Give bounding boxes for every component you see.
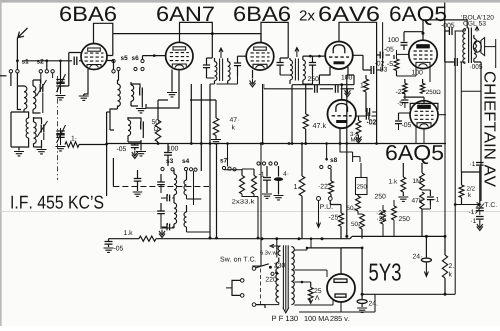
cap line 100 (335, 75, 354, 93)
tuning gang 2 (56, 125, 65, 145)
node s1 (16, 59, 29, 64)
det cap2 (157, 203, 165, 222)
cap -005 (441, 23, 465, 35)
contact s3b (171, 168, 174, 171)
OT primary (463, 29, 466, 64)
label 6AN7 (157, 6, 214, 21)
cap -05 railC (105, 239, 124, 251)
label 6AV6 (319, 6, 379, 21)
wire railC drop262 (252, 142, 262, 266)
contact s1b (9, 70, 12, 73)
scan left edge (0, 0, 2, 326)
node railB dots (288, 142, 378, 145)
cap -05 railB (117, 144, 139, 152)
res 50a dn (351, 214, 364, 239)
det cap1 (157, 174, 165, 193)
wire V2 topcap (180, 22, 213, 58)
PT primary (265, 258, 279, 305)
label 63vw (260, 251, 277, 255)
coil L1 sec frame (11, 112, 29, 147)
contact s7b (228, 167, 231, 170)
wire x247 (246, 197, 248, 239)
box 250 (356, 178, 368, 195)
wire s2c stub (52, 73, 54, 78)
contact s8b (328, 165, 331, 168)
det coil1 (174, 169, 177, 198)
coil L2 rf (33, 80, 41, 113)
wire 33k bot (242, 194, 259, 239)
label s5 (121, 56, 128, 61)
wire 33k top (224, 168, 254, 171)
wire V3 topcap (261, 22, 288, 58)
wire s7 up (226, 142, 229, 166)
cap 02 V4 (363, 22, 384, 74)
wire 47k V2 (190, 100, 216, 139)
scan top edge (0, 0, 500, 3)
ground gang1 (56, 96, 66, 100)
label IF 455 (12, 196, 104, 209)
IFT2 primary (290, 58, 293, 84)
wire IFT2 legs (280, 75, 312, 84)
cap V1 grid (74, 57, 77, 66)
contact s6b (141, 59, 144, 62)
cap 02 V5 (366, 108, 377, 124)
wire V1 cath (84, 69, 88, 96)
wire V4 topcap (339, 22, 377, 143)
res 250ohm v7 (420, 79, 440, 94)
cap 100 v6top (388, 32, 423, 50)
wire vert210 (209, 84, 212, 240)
wire V4 d1 (319, 67, 330, 84)
ground 47k (211, 140, 221, 144)
wire s5c coil (118, 71, 119, 80)
wire x446 vert (444, 29, 446, 237)
wire x347 long (345, 75, 348, 238)
wire v5 line264 (263, 84, 265, 89)
res 47k right (412, 192, 425, 236)
cap 02 V5r (366, 112, 376, 124)
cap 4 elec (274, 166, 288, 195)
tube V5 6AV6 (328, 100, 356, 128)
IFT2 arrow (295, 48, 299, 58)
ground railC end (104, 248, 114, 252)
contact s4a (184, 167, 187, 170)
res 47k V2 (213, 117, 238, 135)
label CHIEFTAIN AV (484, 72, 495, 187)
osc grid cap (131, 84, 142, 100)
label s8 (325, 158, 337, 163)
feedback cap (128, 118, 143, 138)
wire s8 drop (325, 142, 328, 159)
wire det out (187, 198, 202, 200)
shield box corner (113, 158, 209, 187)
wire V1 topcap (94, 23, 113, 43)
padder cap det (133, 170, 143, 196)
wire V5 topcap (341, 85, 343, 100)
wire vert201 (200, 84, 203, 171)
cap -5 v7 (398, 94, 409, 109)
label 285v (330, 316, 349, 321)
PT secondary (291, 247, 294, 305)
cap -05 v7 (395, 113, 411, 130)
wire V1 grid (62, 53, 82, 87)
contact pair b (269, 162, 278, 165)
label 6AQ5 a (390, 6, 446, 25)
wire 5Y3 bot (299, 294, 375, 312)
wire V2 cath gnd (167, 70, 177, 97)
coil feedback (128, 117, 131, 142)
label -05 v6 (384, 47, 393, 52)
gnd -1 mid (262, 194, 272, 198)
contact s1a (16, 70, 19, 73)
wire IFT1 bot (210, 83, 228, 85)
wire V5 right (356, 115, 366, 117)
wire vol link (358, 163, 362, 214)
wire s1b down (10, 73, 12, 86)
tube V3 6BA6 (246, 43, 274, 71)
wire v6 bot (397, 67, 431, 82)
IFT1 left cap (203, 58, 212, 78)
wire coil106 (107, 111, 110, 113)
res 25A (308, 282, 321, 304)
ground osc (34, 140, 47, 154)
cap 24 a (413, 236, 432, 276)
wire V3 screen (261, 84, 264, 145)
OT core (469, 28, 472, 64)
contact s5b (112, 70, 115, 73)
contact pu t2 (328, 197, 332, 201)
res 1meg avc (65, 136, 79, 148)
node railC dots (261, 235, 447, 240)
label 250 left (375, 194, 386, 199)
wire det vert193 (193, 171, 195, 205)
wire x461 vert (460, 62, 462, 172)
gnd -05 railB (132, 151, 138, 159)
trimmer TC (476, 204, 485, 216)
contact s6a (134, 67, 137, 70)
rf coil frame (110, 109, 118, 130)
label 2x (300, 10, 315, 20)
label -25 r (377, 216, 386, 221)
ground 24b (357, 308, 367, 312)
wire pu top (0, 0, 1, 1)
wire V7 frame (404, 97, 438, 110)
tube V6 6AQ5 (409, 40, 437, 68)
label 230 (274, 263, 285, 268)
wire vert216 (215, 144, 218, 240)
wire railC drop277 (276, 239, 278, 258)
wire PT plate b (294, 301, 333, 306)
label PU (320, 204, 332, 209)
wire speaker out (485, 39, 496, 68)
wire vert191 (190, 84, 193, 145)
wire rail C (109, 236, 446, 238)
wire IFT2 to V4 (303, 55, 325, 58)
contact s5a (112, 59, 115, 62)
contact s6c (141, 67, 144, 70)
det coil2 (174, 198, 177, 228)
IFT1 secondary (228, 58, 230, 84)
contact pu t1 (317, 197, 321, 201)
cap -1 tc (469, 210, 484, 224)
label 250 r (399, 216, 410, 221)
contact s8a (320, 165, 323, 168)
wire s1 stub (16, 61, 18, 70)
IFT2 secondary (303, 56, 306, 84)
wire det bottom (187, 231, 211, 233)
ground det (159, 222, 174, 238)
cap -1 mid (259, 166, 271, 193)
label 6AQ5 b (386, 145, 443, 164)
tube V4 6AV6 (325, 42, 353, 70)
osc grid coil (131, 82, 134, 106)
label 5Y3 (369, 263, 401, 280)
label CGL 53 (463, 21, 485, 26)
node s2 (37, 59, 48, 64)
res 1k right (389, 163, 406, 196)
contact s2c (51, 70, 54, 73)
wire V1 screen (107, 34, 113, 56)
tuning gang 1 (56, 74, 65, 94)
ground gang2 (56, 147, 66, 151)
wire V6 plate top (422, 20, 468, 40)
OT arrow (475, 27, 479, 32)
IFT2 right cap (309, 56, 316, 75)
IFT1 primary (215, 58, 217, 84)
wire x347 top (347, 74, 348, 76)
res 1M right (413, 163, 424, 190)
PT 63 winding (270, 244, 281, 255)
wire PT heater (294, 281, 310, 284)
cap 100 s3 (164, 144, 178, 167)
det sec coil1 (184, 171, 187, 199)
tube V8 5Y3 (327, 274, 355, 302)
wire pu arrow (317, 201, 321, 228)
cap 24 b (357, 248, 377, 307)
label TC left (0, 0, 1, 1)
res 47k V5 (303, 85, 326, 129)
wire top border drop (444, 3, 446, 31)
tube V2 6AN7 (166, 42, 193, 69)
tube V7 6AQ5 (410, 101, 438, 129)
res 2k (442, 236, 453, 294)
ground aerial (14, 147, 24, 156)
osc trimmer C2 (34, 118, 48, 140)
wire rail A (113, 34, 261, 43)
wire v7 left (399, 112, 411, 114)
contact s7a (222, 166, 225, 169)
wire 50ohm (157, 100, 168, 145)
label s6 (132, 56, 139, 61)
ground 3-3M (356, 135, 362, 143)
ground 1k right (398, 197, 408, 201)
PT core arrow (283, 308, 289, 313)
gang link dash (57, 76, 59, 180)
wire bot right (361, 293, 456, 296)
ground V1 (79, 96, 89, 100)
wire V2 osc grid (146, 70, 179, 108)
wire V1 s5 (107, 61, 114, 70)
IFT2 core (295, 59, 298, 81)
contact s2a (45, 70, 48, 73)
IFT1 core (220, 59, 223, 82)
gnd arrow mid (345, 89, 351, 97)
ground tc (477, 223, 483, 231)
contact s4c (194, 168, 197, 171)
ground feedback (128, 140, 146, 156)
wire V4 plate r (353, 55, 363, 70)
res 33k a (240, 169, 245, 194)
label PF130 (272, 316, 298, 321)
label Sw on TC (220, 257, 256, 262)
det cap2b (161, 223, 174, 230)
label 220 (266, 277, 277, 282)
res 250 vert (392, 200, 397, 236)
wire rail B (79, 144, 446, 145)
wire TC junction (454, 203, 481, 207)
switch TC bracket (232, 279, 244, 298)
contact s3a (161, 167, 164, 170)
osc coil L3 (34, 117, 37, 147)
wire V5 bottom (339, 129, 342, 145)
res 1meg pu (294, 142, 305, 239)
wire V4 cath (348, 67, 354, 85)
wire ant down (16, 38, 18, 61)
gnd 4 elec (274, 196, 284, 200)
ring 220 (271, 271, 278, 275)
switch TC arm2 (252, 303, 265, 308)
det sec coil2 (184, 205, 187, 232)
switch TC arm (252, 264, 272, 271)
wire V5 frame (291, 83, 354, 145)
speaker (473, 38, 484, 56)
cap -05 v6 (377, 52, 390, 59)
label TC right (485, 202, 497, 207)
wire OT right vert (474, 62, 481, 201)
label s4 (182, 159, 189, 164)
antenna (18, 28, 28, 38)
res -22 v7 (396, 79, 407, 94)
wire v6 left (397, 50, 409, 59)
label 100MA (305, 316, 330, 321)
res 25 vert (381, 205, 386, 236)
wire V7 right (438, 114, 446, 116)
wire V5 jogs (340, 144, 360, 163)
res 3-3M (350, 116, 361, 142)
wire x453b (457, 62, 459, 70)
cap 005 (445, 31, 483, 69)
wire s6 to V2 (143, 54, 166, 59)
label -5 v6 (387, 61, 393, 66)
wire heater bus (307, 247, 364, 250)
res 1k railC (124, 230, 156, 241)
label 6BA6 IF (234, 6, 290, 21)
contact s5c (117, 67, 120, 70)
res -22 pu (319, 169, 334, 197)
res v6 cath (378, 55, 422, 76)
wire edge stub (0, 75, 7, 77)
label 6BA6 RF (60, 6, 116, 21)
wire y91 link (461, 90, 481, 92)
res 50ohm (152, 119, 161, 142)
label 2x33k (232, 199, 255, 204)
wire x106 vert (105, 112, 108, 196)
label s7 (220, 158, 227, 163)
label 25 left (377, 210, 386, 215)
scan fold line (0, 211, 500, 213)
wire s2 grid (24, 61, 82, 70)
det cap1b (161, 194, 174, 201)
wire TC stub (226, 287, 232, 289)
wire PT 63 tap (294, 237, 312, 250)
wire V3 cath (252, 70, 254, 79)
res 2/2k (459, 172, 480, 205)
ground V3 (250, 79, 256, 87)
label ROLA 120 (461, 15, 493, 20)
wire PT plate a (294, 270, 327, 277)
wire 5Y3 top (341, 248, 362, 274)
label s3 (166, 159, 173, 164)
res 1 audio (361, 75, 369, 112)
OT secondary (474, 35, 477, 62)
wire 47k V5 down (304, 129, 307, 145)
contact s4b (189, 168, 192, 171)
tube V1 6BA6 (81, 44, 107, 70)
rf coil right (118, 80, 121, 109)
contact pair a (257, 162, 266, 165)
res -25 (329, 201, 344, 239)
node tuning tap (59, 60, 62, 78)
trimmer C1 (33, 80, 47, 113)
wire s2b stub (40, 73, 42, 84)
coil L1 secondary (26, 118, 28, 138)
coil L1 frame (11, 86, 24, 147)
PT core (283, 245, 288, 308)
contact s7c (233, 168, 236, 171)
wire x454 long (454, 31, 456, 294)
cap .1 top right (470, 162, 483, 205)
IFT2 left cap (277, 58, 289, 75)
cap -1 right (422, 190, 439, 209)
coil L1 primary (17, 73, 27, 112)
wire IFT1 to V3 (238, 55, 247, 57)
IFT1 right cap (234, 56, 241, 76)
IFT1 arrow (219, 48, 223, 58)
wire IFT1 legs (207, 76, 238, 84)
node railA-V2 (211, 32, 214, 35)
wire V7 bot (416, 127, 424, 144)
res 33k b (252, 169, 257, 194)
contact s2b (39, 70, 42, 73)
dash link TC (260, 269, 262, 307)
ground oscgrid (131, 100, 146, 113)
res 50a up (347, 195, 361, 212)
cap line 250 (264, 76, 333, 93)
